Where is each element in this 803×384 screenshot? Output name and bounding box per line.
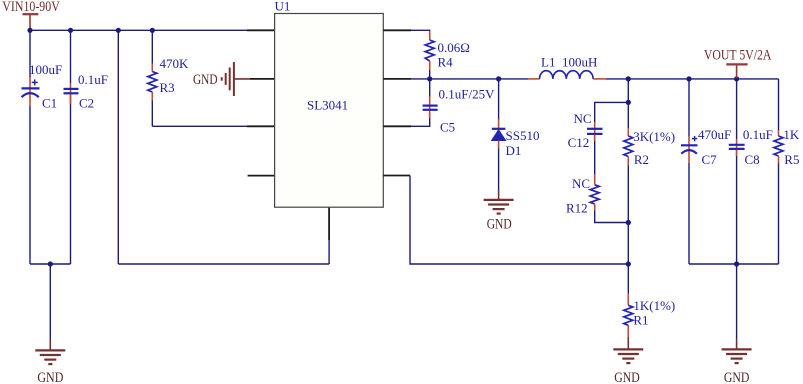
svg-text:SL3041: SL3041 (307, 98, 348, 113)
svg-text:GND: GND (614, 370, 640, 384)
diode D1 SS510 (492, 79, 540, 158)
wire feedback drop right (410, 176, 628, 265)
svg-text:VOUT 5V/2A: VOUT 5V/2A (704, 47, 772, 63)
capacitor C8 0.1uF (729, 79, 773, 167)
pin U1 right pin 1 (383, 29, 411, 31)
node junction R1 (626, 261, 631, 266)
wire C2 bottom lead (70, 104, 72, 264)
power ground GND sideways at U1 pin 2 (193, 62, 250, 96)
pin U1 bottom pin (328, 207, 330, 240)
node junction L1/R2 (626, 76, 631, 81)
svg-text:0.06Ω: 0.06Ω (438, 40, 470, 55)
wire C1 top lead (29, 30, 31, 77)
svg-text:C8: C8 (745, 152, 760, 167)
capacitor C2 0.1uF (64, 72, 108, 111)
svg-text:R1: R1 (633, 313, 648, 328)
wire output ground stem (736, 264, 738, 339)
wire D1 to ground (498, 148, 500, 190)
wire to R4 (411, 30, 430, 32)
wire C7 bottom (688, 163, 690, 264)
wire C12 branch top (595, 102, 629, 122)
pin U1 left pin 1 (247, 29, 275, 31)
svg-text:R5: R5 (784, 152, 799, 167)
wire top rail VIN (30, 29, 247, 31)
node junction R12/R2 (626, 220, 631, 225)
resistor R2 3K(1%) (624, 128, 675, 167)
svg-text:C7: C7 (702, 152, 718, 167)
power flag VOUT net label (704, 47, 772, 78)
inductor L1 100uH (528, 55, 606, 79)
wire input bottom rail (30, 263, 71, 265)
svg-text:GND: GND (37, 370, 63, 384)
svg-text:C2: C2 (79, 96, 94, 111)
ground GND output (722, 339, 752, 384)
resistor R5 1K (774, 79, 800, 167)
resistor R4 0.06ohm (425, 31, 470, 70)
svg-text:0.1uF: 0.1uF (743, 127, 773, 142)
wire R1 top (627, 264, 629, 294)
pin U1 right pin 2 (383, 78, 411, 80)
svg-text:GND: GND (724, 370, 750, 384)
wire up to U1 bottom pin (328, 240, 330, 264)
svg-text:0.1uF/25V: 0.1uF/25V (439, 87, 496, 102)
wire left feedback drop (117, 30, 119, 264)
node junction output ground (734, 261, 739, 266)
svg-text:L1: L1 (541, 55, 555, 70)
svg-text:U1: U1 (275, 0, 291, 14)
ground GND under D1 (484, 191, 514, 233)
svg-text:100uH: 100uH (562, 55, 597, 70)
svg-text:R4: R4 (438, 55, 454, 70)
capacitor C12 NC (568, 111, 603, 150)
ground GND under R1 (613, 337, 643, 384)
svg-text:R3: R3 (160, 80, 175, 95)
svg-text:C12: C12 (568, 135, 590, 150)
pin U1 right pin 3 (383, 125, 411, 127)
wire C2 top lead (70, 30, 72, 83)
wire R12 bottom to R2 line (595, 211, 629, 223)
svg-text:SS510: SS510 (506, 128, 540, 143)
resistor R12 NC (566, 175, 599, 216)
wire C8 bottom (736, 156, 738, 264)
svg-text:R12: R12 (566, 201, 588, 216)
capacitor C1 100uF polarized (22, 62, 63, 111)
node junction C12 branch (626, 100, 631, 105)
node junction R3 (150, 28, 155, 33)
svg-text:0.1uF: 0.1uF (78, 72, 108, 87)
pin U1 left pin 3 (247, 125, 275, 127)
svg-text:D1: D1 (506, 143, 522, 158)
svg-text:C5: C5 (440, 120, 455, 135)
wire R4 bottom (429, 70, 431, 79)
wire R3 bottom to U1 (151, 101, 153, 127)
node junction R4 (427, 76, 432, 81)
wire mid rail switch node (411, 78, 528, 80)
capacitor C7 470uF polarized (681, 79, 731, 167)
svg-text:VIN10-90V: VIN10-90V (2, 0, 60, 15)
svg-text:NC: NC (574, 111, 592, 126)
wire mid rail to VOUT (606, 78, 779, 80)
op-amp U1 SL3041 IC body (275, 0, 384, 207)
resistor R3 470K (148, 56, 189, 101)
wire output bottom rail (689, 263, 779, 265)
wire C5 bottom to U1 pin 3 (411, 118, 430, 126)
wire R2 bottom (627, 166, 629, 265)
node junction feedback wire (116, 28, 121, 33)
node junction D1 (496, 76, 501, 81)
svg-text:1K: 1K (783, 127, 800, 142)
svg-text:GND: GND (193, 72, 218, 88)
pin U1 left pin 4 unconnected stub (248, 175, 275, 177)
wire R5 bottom (778, 164, 780, 265)
node junction VOUT/C8 (734, 76, 739, 81)
wire C12 to R12 (594, 141, 596, 175)
node junction C2 (68, 28, 73, 33)
resistor R1 1K(1%) (624, 294, 675, 337)
power flag VIN net label (2, 0, 60, 29)
svg-text:C1: C1 (42, 96, 57, 111)
wire bottom mid-left run (118, 263, 329, 265)
wire R2 top drop (627, 79, 629, 128)
pin U1 left pin 2 (250, 78, 275, 80)
wire C1 bottom lead (29, 106, 31, 264)
pin U1 right pin 4 (383, 175, 410, 177)
svg-text:GND: GND (487, 217, 512, 233)
node junction input ground (48, 261, 53, 266)
svg-text:NC: NC (572, 176, 590, 191)
svg-text:3K(1%): 3K(1%) (633, 129, 675, 144)
svg-text:1K(1%): 1K(1%) (633, 298, 675, 313)
ground GND input (35, 340, 65, 384)
svg-text:470K: 470K (160, 56, 190, 71)
node junction VIN/C1 (27, 28, 32, 33)
svg-text:100uF: 100uF (29, 62, 62, 77)
svg-text:R2: R2 (634, 152, 649, 167)
wire input ground stem (49, 264, 51, 340)
svg-text:470uF: 470uF (698, 127, 731, 142)
wire R3 top lead (151, 30, 153, 63)
node junction C7 (686, 76, 691, 81)
capacitor C5 0.1uF/25V (423, 79, 495, 135)
